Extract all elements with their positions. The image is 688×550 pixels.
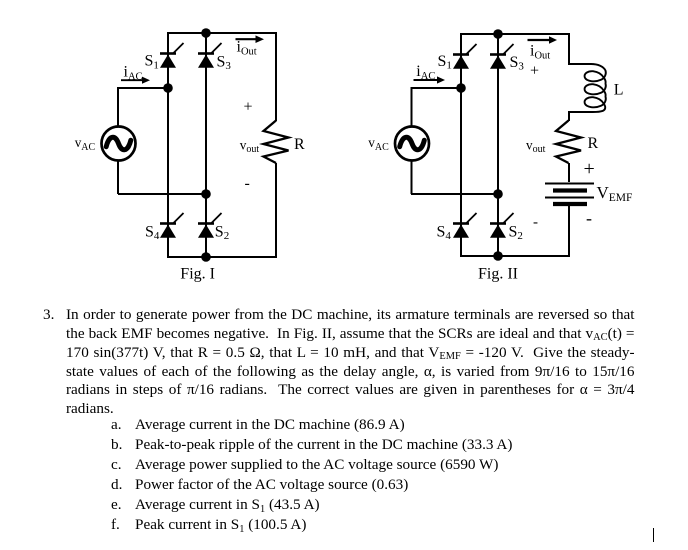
wire Fig II source top vertical: [411, 87, 413, 127]
svg-text:iOut: iOut: [237, 39, 257, 58]
svg-text:S1: S1: [438, 53, 452, 72]
junction top rail / S3 column Fig I: [201, 28, 211, 38]
wire Fig I source bottom vertical: [117, 160, 119, 194]
inductor L Fig II: [569, 64, 606, 112]
wire Fig I bottom rail: [167, 256, 277, 258]
svg-text:S2: S2: [215, 224, 229, 243]
SCR S4 Fig II: [453, 213, 477, 238]
wire Fig I left leg (S1/S4 column): [167, 32, 169, 258]
wire Fig II bottom rail: [460, 255, 570, 257]
list item f. text: [135, 515, 306, 535]
wire Fig I source top vertical: [117, 87, 119, 127]
svg-text:+: +: [530, 63, 539, 80]
SCR S3 Fig I: [198, 43, 222, 68]
svg-text:S3: S3: [510, 54, 525, 73]
junction source / S3-S2 midpoint Fig II: [493, 189, 503, 199]
resistor R Fig I: [264, 121, 289, 164]
paragraph line 5: [66, 380, 635, 400]
paragraph line 2: [66, 324, 635, 344]
svg-text:+: +: [244, 99, 253, 116]
arrow iOut Fig I: [236, 35, 265, 43]
SCR S2 Fig II: [490, 213, 514, 238]
text cursor: [653, 528, 655, 542]
svg-text:S4: S4: [437, 223, 452, 242]
svg-text:vout: vout: [240, 137, 260, 155]
wire Fig I source bottom horizontal: [118, 193, 206, 195]
paragraph line 3: [66, 343, 635, 363]
list item f. marker: [111, 515, 120, 535]
list item c. marker: [111, 455, 122, 475]
junction top rail / S3 column Fig II: [493, 29, 503, 39]
wire Fig I source top horizontal: [118, 87, 168, 89]
SCR S3 Fig II: [490, 44, 514, 69]
svg-text:vout: vout: [526, 138, 546, 156]
svg-text:S2: S2: [509, 224, 523, 243]
wire Fig II load leg above inductor: [568, 34, 570, 65]
wire Fig II between resistor and battery: [568, 163, 570, 182]
paragraph line 1: [66, 305, 635, 325]
junction bottom rail / S2 column Fig I: [201, 252, 211, 262]
svg-text:iOut: iOut: [530, 43, 550, 62]
list item a. text: [135, 415, 405, 435]
SCR S4 Fig I: [160, 213, 184, 238]
paragraph line 6: [66, 399, 114, 419]
svg-text:R: R: [294, 136, 305, 153]
svg-text:S4: S4: [145, 224, 160, 243]
list item b. marker: [111, 435, 122, 455]
svg-text:vAC: vAC: [368, 135, 389, 153]
arrow iAC Fig II: [414, 76, 446, 83]
svg-text:R: R: [588, 135, 599, 152]
SCR S1 Fig I: [160, 43, 184, 68]
wire Fig I load leg bottom: [275, 163, 277, 257]
svg-text:-: -: [533, 215, 538, 231]
paragraph line 4: [66, 362, 635, 382]
svg-text:L: L: [614, 81, 624, 98]
wire Fig II top rail: [460, 33, 570, 35]
wire Fig I top rail: [167, 32, 277, 34]
SCR S2 Fig I: [198, 213, 222, 238]
svg-text:S1: S1: [145, 53, 159, 72]
list item e. marker: [111, 495, 122, 515]
AC source vAC Fig I: [102, 127, 136, 161]
svg-text:-: -: [586, 208, 592, 228]
wire Fig I mid leg (S3/S2 column): [205, 32, 207, 258]
wire Fig II source bottom vertical: [411, 160, 413, 194]
junction source / S1-S4 midpoint Fig II: [456, 83, 466, 93]
SCR S1 Fig II: [453, 44, 477, 69]
svg-text:S3: S3: [217, 54, 232, 73]
arrow iAC Fig I: [121, 77, 150, 84]
list item c. text: [135, 455, 498, 475]
svg-text:vAC: vAC: [75, 135, 96, 153]
list item d. marker: [111, 475, 122, 495]
svg-text:iAC: iAC: [124, 64, 143, 83]
wire Fig II mid leg (S3/S2 column): [497, 33, 499, 257]
arrow iOut Fig II: [528, 36, 558, 43]
svg-text:VEMF: VEMF: [597, 183, 633, 204]
wire Fig II source top horizontal: [411, 87, 461, 89]
wire Fig II between inductor and resistor: [568, 111, 570, 121]
svg-text:iAC: iAC: [416, 63, 435, 82]
wire Fig II below battery: [568, 205, 570, 257]
list item e. text: [135, 495, 320, 515]
list item a. marker: [111, 415, 122, 435]
resistor R Fig II: [556, 121, 581, 164]
wire Fig II left leg (S1/S4 column): [460, 33, 462, 257]
junction source / S1-S4 midpoint Fig I: [163, 83, 173, 93]
problem number 3.: [43, 305, 54, 325]
wire Fig I load leg top: [275, 33, 277, 121]
battery VEMF Fig II: [545, 184, 594, 205]
svg-text:Fig. II: Fig. II: [478, 266, 518, 283]
svg-text:-: -: [245, 175, 250, 192]
list item b. text: [135, 435, 512, 455]
svg-text:+: +: [584, 158, 595, 180]
junction bottom rail / S2 column Fig II: [493, 251, 503, 261]
wire Fig II source bottom horizontal: [411, 193, 498, 195]
junction source / S3-S2 midpoint Fig I: [201, 189, 211, 199]
list item d. text: [135, 475, 408, 495]
svg-text:Fig. I: Fig. I: [180, 265, 215, 282]
AC source vAC Fig II: [395, 127, 429, 161]
